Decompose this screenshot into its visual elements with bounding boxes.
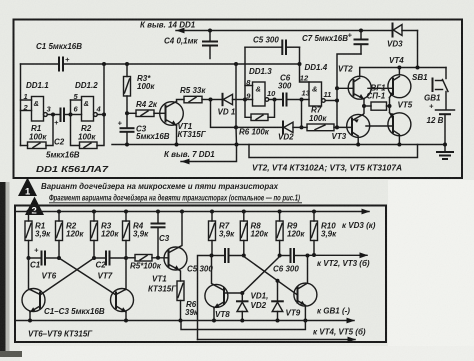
resistor R5* fig2 xyxy=(126,255,169,271)
capacitor C6 fig2 xyxy=(273,249,308,274)
node: R9/C6 junction xyxy=(278,254,282,258)
resistor R1 fig2 xyxy=(25,212,51,259)
transistor VT5 xyxy=(388,101,413,145)
label VT6-VT9 types fig2 xyxy=(28,330,93,339)
capacitor C1 fig2 xyxy=(29,246,46,270)
node: R5/VD1 junction xyxy=(209,98,213,102)
ground symbol battery minus xyxy=(437,145,453,160)
pin 5 stub DD1.2 xyxy=(71,92,82,101)
wire: к VT4 VT5 arrow line xyxy=(198,328,366,343)
capacitor C3 fig2 xyxy=(152,212,170,258)
resistor R10 fig2 xyxy=(311,212,338,256)
resistor R7 fig2 xyxy=(209,212,236,256)
node: C1/DD1.2 output junction xyxy=(102,62,106,66)
figure 1 outer frame xyxy=(14,20,463,179)
wire: VT5 base feed xyxy=(366,125,393,127)
capacitor C4 xyxy=(164,31,217,59)
wire: VT2 collector line y=67.5 xyxy=(360,66,446,70)
resistor R4 xyxy=(127,100,166,117)
diode VD2 fig2 xyxy=(251,281,283,321)
node: R7/C5/VT8 collector xyxy=(210,254,214,258)
wire: C5 right to pin 12 vertical x=299.5 xyxy=(298,47,310,82)
wire: К выв. 7 DD1 arrow xyxy=(164,145,237,165)
caption marker triangle 1 xyxy=(18,178,37,198)
caption marker triangle 2 xyxy=(25,197,44,217)
diode VD1 fig2 xyxy=(237,292,268,321)
transistor VT4 xyxy=(388,56,411,108)
resistor R9 fig2 xyxy=(276,212,305,256)
pin 13 label DD1.4 xyxy=(302,89,311,98)
wire: К выв. 14 DD1 top supply rail y=30.5 xyxy=(140,21,393,34)
node: VT2/VT3 emitters xyxy=(362,104,366,108)
transistor VT1 xyxy=(160,100,207,145)
capacitor C3 polar xyxy=(118,113,170,144)
label 5мкх16В under C2 xyxy=(46,151,80,160)
pin 3 output DD1.1 xyxy=(47,105,60,117)
page gutter black bar left edge xyxy=(0,182,22,357)
node: C7 tap on rail xyxy=(359,29,363,33)
wire: cross coupling diagonal to VT9 base xyxy=(244,257,298,296)
diode VD1 xyxy=(211,94,245,117)
resistor R6 fig1 xyxy=(239,100,275,137)
node: R1/C1/VT6 collector xyxy=(27,256,31,260)
diode VD3 xyxy=(387,24,418,49)
diode VD2 xyxy=(236,122,302,142)
wire: C5 left to DD1.3 inputs vertical x=245 xyxy=(243,47,251,117)
transistor VT3 xyxy=(332,106,370,145)
resistor R3* xyxy=(124,64,156,113)
speaker BF1 xyxy=(364,84,390,111)
transistor VT1 fig2 xyxy=(148,212,187,294)
wire: C2 to DD1.2 inputs tie x=70.5 xyxy=(64,100,80,146)
resistor R2 fig2 xyxy=(56,212,85,259)
label VT2 VT4 types xyxy=(252,164,402,173)
wire: fig2 top supply rail with arrow к VD3 xyxy=(15,209,376,230)
node: DD1.2 output to VD2 branch xyxy=(234,62,238,66)
resistor R1 xyxy=(21,115,54,149)
node: R3 top on C1 line xyxy=(125,62,129,66)
node: pin13/VD2 branch xyxy=(300,98,304,130)
capacitor C7 polar xyxy=(302,31,368,55)
resistor R2 xyxy=(78,124,97,149)
logic gate DD1.1 xyxy=(26,81,49,121)
pin 11 output DD1.4 xyxy=(324,90,338,101)
transistor VT9 xyxy=(286,256,317,321)
pin 1 stub DD1.1 xyxy=(21,92,32,101)
wire: drop from R5 node to VD2 line xyxy=(211,100,237,128)
transistor VT6 xyxy=(22,258,57,321)
resistor R7 fig1 xyxy=(302,106,338,131)
wire: cross coupling diagonal to VT7 base xyxy=(59,258,116,295)
wire: cross coupling diagonal to VT6 base xyxy=(40,258,94,295)
wire: loop under output stage xyxy=(249,145,418,158)
caption 2 text underlined xyxy=(49,194,302,203)
capacitor C1 xyxy=(36,42,82,71)
resistor R3 fig2 xyxy=(91,212,120,259)
resistor R5 xyxy=(180,86,211,103)
node: VT9 collector/R10 and arrow к VT2 VT3 xyxy=(306,252,370,268)
wire: VT2 base line xyxy=(337,87,354,89)
transistor VT7 xyxy=(98,258,134,321)
pin 12 label DD1.4 xyxy=(300,74,309,83)
capacitor C2 fig2 xyxy=(94,252,126,270)
pin 9 stub DD1.3 xyxy=(245,92,253,101)
battery GB1 xyxy=(424,94,455,145)
wire: VT3 base line xyxy=(337,126,352,128)
resistor R8 fig2 xyxy=(240,212,269,256)
node: R2/C1 junction xyxy=(45,256,61,260)
capacitor C5 fig2 xyxy=(187,249,244,274)
logic gate DD1.4 xyxy=(305,63,328,106)
capacitor C2 xyxy=(54,109,65,147)
figure 2 outer frame xyxy=(15,206,386,343)
wire: DD1.1 input left rail x=20.5 xyxy=(20,64,22,146)
transistor VT8 xyxy=(205,256,230,321)
wire: vertical x=236 from output line to VD2 line xyxy=(234,64,238,145)
logic gate DD1.3 xyxy=(249,67,272,106)
caption 1 text xyxy=(41,182,279,191)
wire: cross coupling diagonal to VD1/VT8 base xyxy=(224,257,280,296)
pin 10 output DD1.3 xyxy=(267,89,282,102)
wire: fig2 emitter rail with arrow к GB1 xyxy=(15,307,355,324)
node: R3/C2 junction xyxy=(92,256,96,260)
resistor R6 fig2 xyxy=(177,281,199,321)
node: R3/R4/C3 junction xyxy=(125,111,129,115)
wire: C7 bottom hook to base column x=337 xyxy=(335,54,361,129)
label DD1 К561ЛА7 xyxy=(36,165,109,174)
node: C4 tap on rail xyxy=(208,29,212,33)
resistor R4 fig2 xyxy=(123,212,150,259)
node: R8/C5 junction xyxy=(242,254,246,258)
wire: lower bus from R6 to VT9 emitter xyxy=(181,321,305,330)
pin 4 output DD1.2 xyxy=(96,105,105,115)
capacitor C6 xyxy=(278,74,309,106)
wire: VT4 base feed xyxy=(368,87,393,89)
wire: fig1 ground rail y=144.5 xyxy=(112,143,447,147)
pin 8 stub DD1.3 xyxy=(245,78,253,87)
wire: DD1.2 output vertical x=104 xyxy=(97,64,106,146)
wire: C1 feedback line y=64 xyxy=(21,63,301,65)
pin 2 stub DD1.1 xyxy=(21,103,32,112)
switch SB1 xyxy=(412,68,448,110)
logic gate DD1.2 xyxy=(75,81,98,121)
pin 6 stub DD1.2 xyxy=(71,105,82,115)
transistor VT2 xyxy=(338,64,371,106)
wire: VT8 collector node to VT4 VT5 line xyxy=(198,256,212,340)
capacitor C5 xyxy=(245,36,300,55)
label C1-C3 values fig2 xyxy=(44,307,105,316)
node: R4/C2/VT7 collector xyxy=(124,256,128,260)
wire: rail corner down to collector line xyxy=(417,31,419,68)
